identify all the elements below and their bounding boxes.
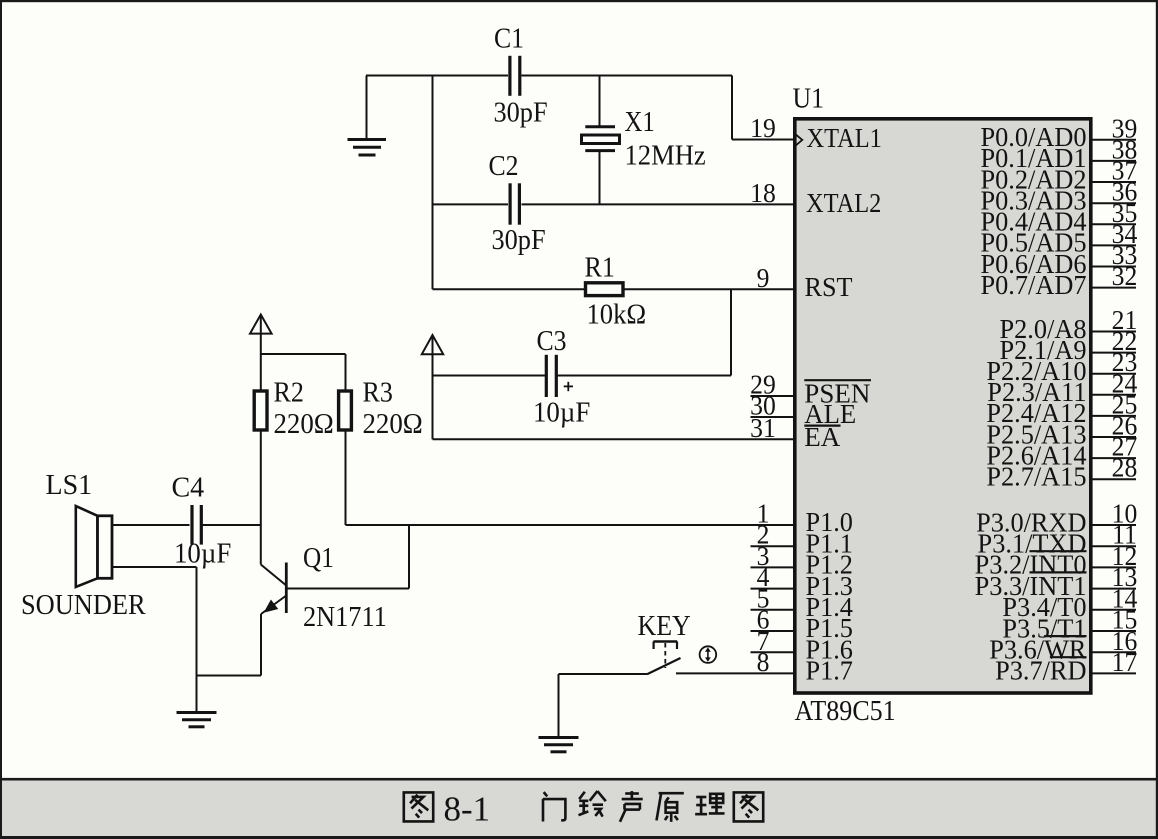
pin 10 P3.0/RXD <box>976 499 1137 537</box>
label R3 <box>363 377 393 408</box>
wire KEY to P1.7 <box>676 672 795 674</box>
pin 31 EA <box>750 413 841 452</box>
label C1 <box>494 22 524 53</box>
ground G3 <box>539 738 579 752</box>
pin 32 P0.7/AD7 <box>980 262 1137 300</box>
svg-text:R3: R3 <box>363 377 393 408</box>
svg-text:R1: R1 <box>585 251 615 282</box>
ground G2 <box>177 713 217 727</box>
pin 14 P3.4/T0 <box>1002 584 1137 622</box>
wire R3 to P1.0 net <box>346 430 795 525</box>
pin 6 P1.5 <box>751 605 853 643</box>
svg-text:P2.7/A15: P2.7/A15 <box>986 461 1086 491</box>
pin 36 P0.3/AD3 <box>980 177 1137 215</box>
pin 18 XTAL2 <box>750 178 881 218</box>
svg-text:SOUNDER: SOUNDER <box>21 589 146 620</box>
svg-text:10kΩ: 10kΩ <box>587 299 647 330</box>
capacitor C2 <box>510 183 519 224</box>
wire C4 to base node <box>203 524 261 526</box>
pin 30 ALE <box>750 391 856 429</box>
label 220Ω (R3) <box>363 409 423 440</box>
label LS1 <box>46 470 93 501</box>
label U1 <box>793 83 824 114</box>
svg-text:12MHz: 12MHz <box>625 140 706 171</box>
pin 28 P2.7/A15 <box>986 453 1137 491</box>
pin 26 P2.5/A13 <box>986 411 1137 449</box>
pin 7 P1.6 <box>751 626 853 664</box>
pin 38 P0.1/AD1 <box>980 135 1137 173</box>
IC U1 AT89C51 body <box>795 119 1091 693</box>
label X1 <box>625 106 655 138</box>
pin 1 P1.0 <box>757 499 853 537</box>
label AT89C51 <box>795 695 896 726</box>
crystal X1 <box>582 127 620 151</box>
pin 19 XTAL1 <box>750 113 882 153</box>
pin 22 P2.1/A9 <box>999 327 1137 365</box>
svg-text:32: 32 <box>1112 262 1138 292</box>
svg-text:RST: RST <box>805 271 853 301</box>
caption text 图 8-1 门铃声原理图 <box>404 789 763 828</box>
svg-text:AT89C51: AT89C51 <box>795 695 896 726</box>
pin 8 P1.7 <box>757 647 853 685</box>
speaker LS1 <box>76 506 112 587</box>
capacitor C3 <box>546 355 573 397</box>
svg-text:LS1: LS1 <box>46 470 93 501</box>
capacitor C1 <box>510 56 520 96</box>
pin 4 P1.3 <box>751 563 853 601</box>
ground G1 <box>348 140 387 156</box>
label 10µF (C3) <box>533 397 590 428</box>
label KEY <box>638 610 691 641</box>
svg-text:Q1: Q1 <box>303 542 334 574</box>
label 30pF (C1) <box>494 97 548 128</box>
wire speaker top to C4 <box>112 524 190 526</box>
svg-text:P0.7/AD7: P0.7/AD7 <box>980 270 1086 300</box>
label 10kΩ <box>587 299 647 330</box>
pin 5 P1.4 <box>751 584 853 622</box>
pin 21 P2.0/A8 <box>999 305 1137 343</box>
pin 17 P3.7/RD <box>995 647 1137 685</box>
svg-text:30pF: 30pF <box>494 97 548 128</box>
wire KEY left to ground <box>559 674 648 737</box>
switch actuator symbol <box>700 646 717 663</box>
pin 15 P3.5/T1 <box>1002 605 1137 643</box>
pin 13 P3.3/INT1 <box>975 563 1138 601</box>
capacitor C4 <box>192 505 201 545</box>
pin 9 RST <box>757 263 853 302</box>
pin 34 P0.5/AD5 <box>980 219 1137 257</box>
label C3 <box>537 325 567 356</box>
svg-text:220Ω: 220Ω <box>274 409 334 440</box>
switch KEY <box>647 642 681 675</box>
wire top net (ground-C1) <box>366 76 508 140</box>
pin 11 P3.1/TXD <box>978 520 1137 558</box>
pin 37 P0.2/AD2 <box>980 156 1137 194</box>
svg-text:C4: C4 <box>172 473 205 504</box>
pin 27 P2.6/A14 <box>986 432 1137 470</box>
pin 29 PSEN <box>750 370 871 408</box>
pin 24 P2.3/A11 <box>987 369 1137 407</box>
pin 16 P3.6/WR <box>989 626 1137 664</box>
pin 2 P1.1 <box>751 520 853 558</box>
pin 3 P1.2 <box>751 541 853 579</box>
label Q1 <box>303 542 334 574</box>
svg-text:10µF: 10µF <box>174 538 231 569</box>
svg-text:X1: X1 <box>625 106 655 138</box>
svg-text:P3.7/RD: P3.7/RD <box>995 655 1086 685</box>
label C2 <box>489 150 519 181</box>
svg-text:P1.7: P1.7 <box>806 655 853 685</box>
resistor R1 <box>586 283 624 296</box>
svg-text:28: 28 <box>1112 453 1138 483</box>
wire C3 net <box>433 375 732 377</box>
svg-text:17: 17 <box>1112 647 1138 677</box>
wire XTAL1 net <box>522 76 795 140</box>
svg-text:R2: R2 <box>274 377 304 408</box>
svg-text:30pF: 30pF <box>492 224 546 255</box>
label 10µF (C4) <box>174 538 231 569</box>
pin 39 P0.0/AD0 <box>980 114 1137 152</box>
svg-text:2N1711: 2N1711 <box>303 601 387 632</box>
pin 23 P2.2/A10 <box>986 348 1137 386</box>
svg-text:C2: C2 <box>489 150 519 181</box>
svg-text:C3: C3 <box>537 325 567 356</box>
svg-text:KEY: KEY <box>638 610 691 641</box>
svg-text:C1: C1 <box>494 22 524 53</box>
power arrow VCC2 <box>422 335 443 439</box>
label 12MHz <box>625 140 706 171</box>
resistor R3 <box>339 391 352 430</box>
wire RST net <box>433 76 795 376</box>
pin 12 P3.2/INT0 <box>975 541 1138 579</box>
label R2 <box>274 377 304 408</box>
label 30pF (C2) <box>492 224 546 255</box>
wire emitter to ground <box>197 614 262 676</box>
transistor Q1 <box>261 525 409 614</box>
label SOUNDER <box>21 589 146 620</box>
label 2N1711 <box>303 601 387 632</box>
wire speaker bottom to ground <box>112 567 197 712</box>
wire R2 to base node <box>260 430 262 565</box>
wire XTAL2 net <box>433 152 795 205</box>
caption bar <box>0 778 1158 839</box>
svg-text:XTAL2: XTAL2 <box>806 188 881 218</box>
wire EA net <box>433 438 795 440</box>
svg-text:XTAL1: XTAL1 <box>807 123 882 153</box>
svg-text:10µF: 10µF <box>533 397 590 428</box>
wire VCC tie R2-R3 <box>261 354 346 391</box>
resistor R2 <box>254 391 267 430</box>
label C4 <box>172 473 205 504</box>
svg-text:U1: U1 <box>793 83 824 114</box>
pin 35 P0.4/AD4 <box>980 198 1137 236</box>
svg-text:220Ω: 220Ω <box>363 409 423 440</box>
pin 25 P2.4/A12 <box>986 390 1137 428</box>
label 220Ω (R2) <box>274 409 334 440</box>
power arrow VCC1 <box>250 315 272 391</box>
pin 33 P0.6/AD6 <box>980 240 1137 278</box>
label R1 <box>585 251 615 282</box>
svg-text:8-1: 8-1 <box>444 789 491 828</box>
